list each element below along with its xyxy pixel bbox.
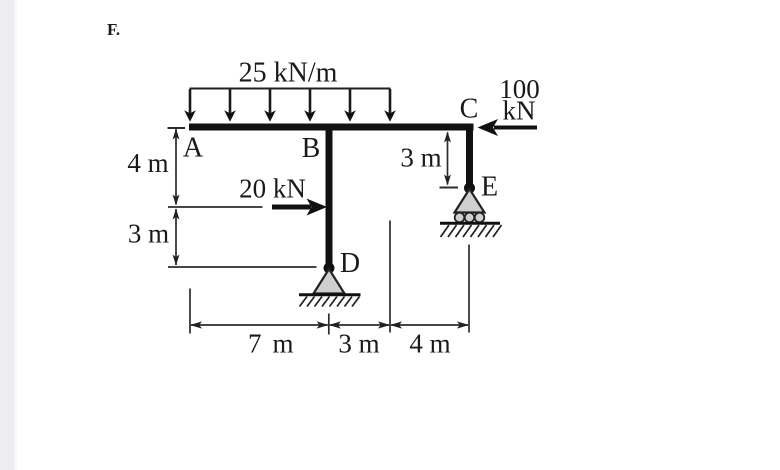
extension tick below D bbox=[328, 314, 330, 335]
svg-text:4 m: 4 m bbox=[409, 329, 450, 359]
column member C-E bbox=[466, 124, 473, 189]
distributed load arrow 6 bbox=[384, 89, 396, 122]
svg-text:C: C bbox=[460, 94, 479, 125]
svg-text:4 m: 4 m bbox=[127, 148, 168, 178]
distributed load 25 kN/m : header line bbox=[190, 88, 391, 90]
pin support at D : triangle bbox=[314, 269, 345, 294]
svg-text:D: D bbox=[340, 248, 360, 279]
ground line at D bbox=[299, 293, 361, 296]
bottom dimension line 7 m segment bbox=[190, 321, 329, 328]
svg-text:20 kN: 20 kN bbox=[239, 174, 306, 204]
svg-text:25 kN/m: 25 kN/m bbox=[239, 58, 338, 89]
extension line below A (left end of bottom dimensions) bbox=[189, 289, 191, 334]
svg-text:E: E bbox=[481, 171, 498, 202]
force 20 kN arrow bbox=[272, 199, 327, 216]
left dimension chain: top tick at beam level bbox=[168, 127, 186, 129]
extension line at 20 kN level bbox=[168, 206, 263, 208]
right dimension line 3 m (C to E) bbox=[444, 132, 451, 186]
distributed load arrow 4 bbox=[304, 89, 316, 122]
distributed load arrow 3 bbox=[264, 89, 276, 122]
left dimension line 4 m segment bbox=[173, 129, 180, 206]
svg-text:F.: F. bbox=[107, 20, 120, 39]
svg-text:3 m: 3 m bbox=[400, 143, 441, 173]
bottom dimension line 4 m segment bbox=[390, 321, 469, 328]
svg-text:3 m: 3 m bbox=[128, 219, 169, 249]
svg-text:A: A bbox=[183, 132, 204, 163]
bottom tick of right 3 m dimension bbox=[440, 187, 459, 189]
ground hatching at D bbox=[300, 297, 360, 307]
beam member A-C bbox=[189, 124, 474, 131]
force 100 kN arrow bbox=[478, 119, 538, 136]
bottom dimension line 3 m segment bbox=[329, 321, 390, 328]
ground line at E bbox=[440, 222, 500, 225]
pin node D bbox=[324, 263, 335, 274]
svg-text:B: B bbox=[302, 133, 321, 164]
extension line at load right end bbox=[389, 221, 391, 333]
ground hatching at E bbox=[441, 225, 502, 237]
svg-text:kN: kN bbox=[503, 96, 536, 126]
svg-text:3 m: 3 m bbox=[338, 329, 379, 359]
distributed load arrow 2 bbox=[224, 89, 236, 122]
left dimension line 3 m segment bbox=[173, 209, 180, 266]
left page gutter strip bbox=[0, 0, 14, 470]
roller node E bbox=[464, 183, 475, 194]
roller wheels at E bbox=[455, 213, 485, 223]
distributed load arrow 1 bbox=[184, 89, 196, 122]
roller support at E : triangle bbox=[455, 189, 485, 213]
extension line at D level bbox=[168, 266, 317, 268]
extension line below E bbox=[468, 245, 470, 333]
column member B-D bbox=[326, 124, 333, 269]
distributed load arrow 5 bbox=[344, 89, 356, 122]
